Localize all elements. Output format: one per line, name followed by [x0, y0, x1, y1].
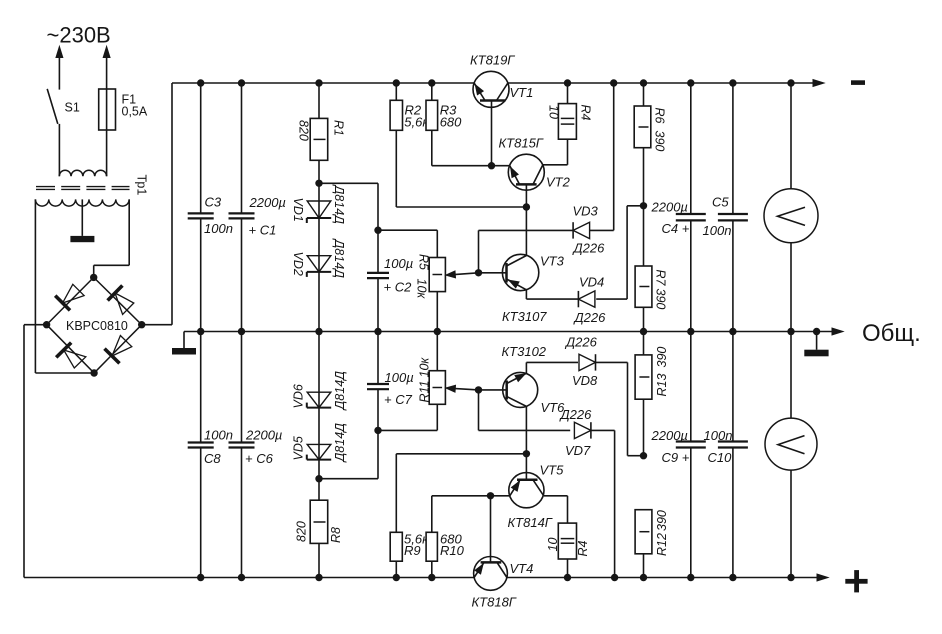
- bridge diode top-right: [108, 286, 134, 315]
- capacitor C9 2200u: [651, 332, 706, 578]
- svg-text:Д814Д: Д814Д: [333, 371, 347, 412]
- svg-text:100µ: 100µ: [385, 370, 414, 385]
- R11 wiper arrow: [446, 385, 479, 392]
- top rail (minus) wire: [172, 80, 824, 87]
- wire C7 node to R11 bottom: [378, 404, 437, 430]
- node R1/VD1 junction: [315, 180, 322, 187]
- svg-text:+ C1: + C1: [249, 223, 277, 238]
- svg-text:Тр1: Тр1: [135, 175, 149, 196]
- svg-text:КТ818Г: КТ818Г: [472, 595, 517, 610]
- node VT4 base junction: [487, 492, 494, 499]
- svg-text:10к: 10к: [415, 279, 429, 300]
- svg-text:VT1: VT1: [510, 85, 534, 100]
- bridge diode bottom-left: [56, 343, 86, 368]
- svg-text:C4 +: C4 +: [662, 221, 690, 236]
- svg-text:Д814Д: Д814Д: [332, 184, 346, 225]
- node C2 top junction: [374, 227, 381, 234]
- svg-text:2200µ: 2200µ: [651, 428, 688, 443]
- R5 wiper arrow: [446, 271, 479, 278]
- node VT1 base junction: [488, 162, 495, 169]
- svg-text:R4: R4: [576, 540, 590, 556]
- svg-text:R9: R9: [404, 543, 421, 558]
- ground (transformer center tap): [70, 236, 94, 242]
- svg-text:KBPC0810: KBPC0810: [66, 319, 128, 333]
- resistor R8 820: [295, 479, 344, 578]
- node bridge AC bottom: [90, 369, 97, 376]
- svg-text:C5: C5: [712, 195, 729, 210]
- svg-text:S1: S1: [65, 101, 80, 115]
- potentiometer R11 10k: [418, 332, 446, 405]
- svg-text:R1: R1: [332, 120, 346, 136]
- diode VD8 D226: [526, 335, 643, 456]
- svg-text:VT3: VT3: [540, 254, 565, 269]
- switch S1: [47, 89, 80, 176]
- svg-text:10к: 10к: [418, 357, 432, 378]
- node bridge DC right (-): [138, 321, 145, 328]
- wire VT5 collector to R4 bottom: [544, 495, 568, 497]
- node bridge AC top: [90, 274, 97, 281]
- resistor R6 390: [634, 83, 666, 266]
- transistor VT5 KT814G: [508, 463, 565, 531]
- wire bridge + output to bottom rail: [24, 325, 47, 578]
- svg-text:680: 680: [440, 115, 462, 130]
- diode VD3 D226: [479, 83, 614, 256]
- resistor R4 10 (bottom): [546, 496, 590, 578]
- svg-text:VD7: VD7: [565, 443, 591, 458]
- node bridge DC left (+): [43, 321, 50, 328]
- junction dots top rail: [197, 79, 795, 86]
- resistor R9 5,6k: [390, 454, 526, 578]
- svg-text:R6: R6: [653, 108, 667, 124]
- svg-text:Общ.: Общ.: [862, 320, 921, 347]
- svg-text:C9 +: C9 +: [662, 450, 690, 465]
- resistor R3 680: [426, 83, 510, 166]
- svg-text:C10: C10: [708, 450, 733, 465]
- transistor VT1 KT819G: [470, 53, 533, 166]
- ground (mid rail left): [172, 332, 196, 355]
- svg-text:VD1: VD1: [291, 198, 305, 222]
- capacitor C10 100n: [704, 332, 748, 578]
- svg-text:+ C2: + C2: [384, 280, 413, 295]
- svg-text:390: 390: [654, 289, 668, 310]
- svg-text:КТ819Г: КТ819Г: [470, 53, 515, 68]
- ground (mid rail right): [804, 332, 828, 357]
- transistor VT3 KT3107: [479, 254, 565, 325]
- svg-text:КТ815Г: КТ815Г: [499, 136, 544, 151]
- mains arrow right (fuse feed): [103, 47, 110, 90]
- zener diode VD2 D814D: [291, 238, 346, 279]
- svg-text:VD5: VD5: [292, 436, 306, 460]
- resistor R13 390: [635, 332, 669, 456]
- node C7 bottom junction: [374, 427, 381, 434]
- svg-text:100n: 100n: [703, 223, 732, 238]
- svg-text:390: 390: [655, 510, 669, 531]
- svg-text:R10: R10: [440, 543, 465, 558]
- voltmeter PV2: [765, 332, 817, 578]
- label common output: [862, 320, 921, 347]
- svg-text:100n: 100n: [704, 428, 733, 443]
- resistor R1 820: [297, 83, 346, 183]
- transformer Tr1 core: [36, 187, 130, 190]
- junction dots bottom rail: [197, 574, 795, 581]
- label Tr1: [135, 175, 149, 196]
- svg-text:10: 10: [546, 538, 560, 552]
- bridge diode bottom-right: [105, 336, 132, 364]
- resistor R10 680: [426, 496, 490, 578]
- svg-text:100n: 100n: [204, 428, 233, 443]
- svg-text:390: 390: [655, 347, 669, 368]
- capacitor C1 2200u: [229, 83, 286, 332]
- svg-text:~230В: ~230В: [47, 23, 111, 48]
- svg-text:+ C6: + C6: [245, 451, 274, 466]
- svg-text:390: 390: [653, 131, 667, 152]
- potentiometer R5 10k: [415, 254, 446, 332]
- svg-text:Д226: Д226: [564, 335, 598, 350]
- node VT3 base junction: [475, 269, 482, 276]
- svg-text:Д226: Д226: [573, 310, 607, 325]
- wire R8 node to C7 column: [319, 430, 378, 478]
- svg-text:Д226: Д226: [572, 241, 606, 256]
- transistor VT2 KT815G: [499, 136, 571, 256]
- svg-text:R4: R4: [579, 105, 593, 121]
- transformer center tap wire: [81, 199, 83, 236]
- svg-text:Д814Д: Д814Д: [332, 238, 346, 279]
- diode VD4 D226: [526, 206, 643, 325]
- svg-text:VT5: VT5: [540, 463, 565, 478]
- wire bridge - output to top rail: [142, 83, 172, 325]
- svg-text:VD8: VD8: [572, 373, 598, 388]
- svg-text:820: 820: [295, 521, 309, 542]
- svg-text:КТ3102: КТ3102: [502, 344, 547, 359]
- transistor VT6 KT3102: [479, 344, 566, 480]
- svg-text:VT2: VT2: [546, 175, 571, 190]
- capacitor C6 2200u: [229, 332, 283, 578]
- svg-text:+ C7: + C7: [384, 392, 413, 407]
- svg-text:R11: R11: [418, 380, 432, 402]
- transformer Tr1 primary winding: [59, 170, 106, 176]
- svg-text:C3: C3: [205, 195, 222, 210]
- bridge rectifier KBPC0810 outline: [47, 277, 142, 373]
- resistor R7 390: [635, 266, 667, 332]
- svg-text:R12: R12: [655, 533, 669, 556]
- label plus output: [845, 570, 867, 592]
- svg-text:R7: R7: [654, 270, 668, 287]
- wire secondary right to bridge AC node: [94, 199, 130, 277]
- node VD5/R8 junction: [315, 475, 322, 482]
- resistor R2 5,6k: [390, 83, 526, 207]
- wire R1 node to C2 column: [319, 183, 378, 230]
- capacitor C7 100u: [367, 332, 414, 431]
- wire VT6 base riser to VD7 line: [478, 390, 480, 431]
- svg-text:КТ3107: КТ3107: [502, 309, 547, 324]
- transistor VT4 KT818G: [472, 496, 534, 610]
- capacitor C2 100u: [367, 230, 413, 331]
- svg-text:100µ: 100µ: [384, 256, 413, 271]
- node R2/VT2 base junction: [523, 203, 530, 210]
- zener diode VD5 D814D: [292, 423, 348, 464]
- bottom rail (plus) wire: [24, 574, 828, 581]
- svg-text:VD2: VD2: [291, 252, 305, 276]
- svg-text:2200µ: 2200µ: [651, 200, 688, 215]
- svg-text:VD3: VD3: [573, 204, 599, 219]
- svg-text:VD6: VD6: [292, 384, 306, 408]
- svg-text:КТ814Г: КТ814Г: [508, 515, 553, 530]
- svg-text:820: 820: [297, 120, 311, 141]
- wire VT3 base riser to VD3 line: [478, 230, 480, 272]
- mains arrow left: [56, 47, 63, 90]
- svg-text:VD4: VD4: [579, 275, 604, 290]
- svg-text:VT4: VT4: [510, 561, 534, 576]
- svg-text:R5: R5: [417, 254, 431, 270]
- zener diode VD6 D814D: [292, 332, 348, 479]
- label minus output: [851, 80, 865, 85]
- label ~230V mains voltage: [47, 23, 111, 48]
- node R9/VT5 base junction: [523, 450, 530, 457]
- transformer Tr1 secondary winding: [35, 199, 129, 206]
- capacitor C4 2200u: [651, 83, 706, 332]
- wire secondary left to bridge AC node: [35, 199, 94, 373]
- zener diode VD1 D814D: [291, 183, 346, 331]
- mid rail (common) wire: [184, 328, 843, 335]
- svg-text:10: 10: [547, 105, 561, 119]
- node VD8/R12/R13 junction: [640, 452, 647, 459]
- resistor R4 10 (top): [543, 83, 593, 165]
- svg-text:2200µ: 2200µ: [245, 428, 282, 443]
- svg-text:Д226: Д226: [559, 407, 593, 422]
- node VT6 base junction: [475, 386, 482, 393]
- fuse F1 0,5A: [99, 89, 148, 176]
- wire VT5 emitter to base node: [491, 495, 510, 497]
- junction dots mid rail: [197, 328, 820, 335]
- bridge diode top-left: [55, 284, 84, 310]
- svg-text:R8: R8: [329, 527, 343, 543]
- svg-text:100n: 100n: [204, 221, 233, 236]
- capacitor C5 100n: [703, 83, 748, 332]
- svg-text:C8: C8: [204, 451, 221, 466]
- node VD4/R6/R7 junction: [640, 202, 647, 209]
- voltmeter PV1: [764, 83, 818, 332]
- capacitor C3 100n: [188, 83, 233, 332]
- diode VD7 D226: [479, 407, 615, 578]
- svg-text:2200µ: 2200µ: [249, 195, 286, 210]
- svg-text:0,5A: 0,5A: [122, 105, 148, 119]
- svg-text:R13: R13: [655, 374, 669, 397]
- capacitor C8 100n: [188, 332, 233, 578]
- svg-text:Д814Д: Д814Д: [333, 423, 347, 464]
- resistor R12 390: [635, 510, 669, 578]
- wire C2 node to R5 top: [378, 230, 437, 257]
